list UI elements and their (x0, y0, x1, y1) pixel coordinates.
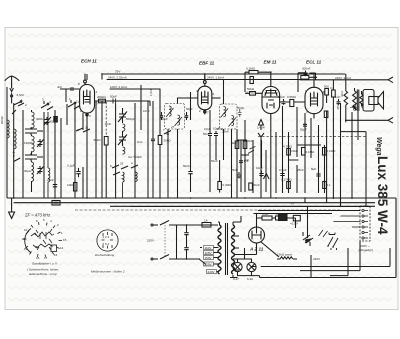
svg-text:75V: 75V (115, 70, 120, 74)
wire EBF top to bus (204, 74, 206, 81)
svg-text:25nF: 25nF (336, 102, 340, 109)
svg-text:2,5nF: 2,5nF (17, 93, 25, 97)
svg-text:50pF: 50pF (161, 117, 168, 121)
resistor 0.17M box (287, 182, 291, 189)
wire ECH top to bus (87, 74, 102, 80)
rosette switch wafer (23, 222, 62, 258)
svg-text:Drehschaltung: Drehschaltung (95, 253, 115, 257)
svg-text:Schaltplatten I u. II: Schaltplatten I u. II (32, 262, 57, 266)
wire x109 vertical (105, 145, 107, 198)
trimmer C L2 (37, 139, 44, 147)
resistor 50k osc (104, 137, 108, 146)
svg-text:(Wegadyn): (Wegadyn) (359, 248, 374, 252)
power transformer primary (218, 225, 221, 274)
capacitor 2.5nF antenna (11, 93, 13, 99)
svg-text:150V: 150V (205, 256, 212, 260)
svg-text:3,4Ω: 3,4Ω (262, 212, 269, 216)
svg-text:-7V: -7V (290, 202, 295, 206)
svg-text:0,3MΩ: 0,3MΩ (223, 183, 233, 187)
wire right edge drop (305, 198, 396, 278)
svg-text:11: 11 (76, 100, 79, 104)
coil 300pF left edge (7, 120, 9, 138)
voltage tap 240V (207, 270, 217, 274)
IF trap box on bus (52, 201, 60, 206)
wire ECL top area (298, 73, 317, 92)
svg-text:12: 12 (24, 247, 28, 251)
svg-text:EM 11: EM 11 (264, 60, 277, 65)
svg-text:50pF: 50pF (110, 94, 117, 98)
voltage tap 150V (204, 256, 214, 260)
svg-text:50kΩ: 50kΩ (94, 138, 102, 142)
svg-text:10nF: 10nF (256, 166, 263, 170)
svg-text:50nF: 50nF (203, 132, 210, 136)
switch contact a1 (12, 102, 24, 114)
svg-text:50nF: 50nF (253, 183, 260, 187)
svg-text:1nF: 1nF (244, 158, 249, 162)
svg-text:300pF: 300pF (0, 116, 4, 125)
bandfilter coil L3 (32, 162, 34, 181)
tube ECL11 internals (311, 92, 318, 106)
capacitor 50pF (113, 99, 116, 104)
wire x83 vertical (82, 113, 84, 198)
svg-text:Ca. 500pF: Ca. 500pF (128, 155, 142, 159)
svg-text:0,2: 0,2 (330, 86, 335, 90)
capacitor 25nF below EBF (214, 131, 218, 160)
svg-text:15kΩ warm: 15kΩ warm (277, 253, 293, 257)
voltage tap 125V (204, 251, 214, 255)
capacitor 0.5uF (280, 171, 284, 177)
resistor 4.7M box (287, 149, 291, 156)
svg-text:4nF: 4nF (57, 85, 62, 89)
wire x75 vertical (74, 104, 76, 198)
wire x153 vertical (152, 101, 154, 198)
capacitor 10nF x153 (151, 138, 155, 142)
wire IF2 out (224, 80, 232, 199)
resistor 0.2 below ECL (324, 111, 328, 118)
output transformer secondary (360, 94, 363, 106)
svg-text:10nF: 10nF (213, 127, 220, 131)
capacitor 25nF mid2 (237, 172, 241, 178)
wire mains top run (173, 224, 218, 226)
bus second (14, 202, 375, 204)
svg-text:0,17MΩ: 0,17MΩ (281, 178, 292, 182)
svg-text:0,1MΩ: 0,1MΩ (246, 91, 256, 95)
switch contact a3 (68, 100, 80, 109)
wire x115.6 vertical (115, 104, 117, 199)
capacitor 25nF out (350, 105, 358, 110)
capacitor pair mid (259, 171, 263, 177)
speaker cone (378, 92, 384, 110)
svg-text:1MΩ: 1MΩ (67, 183, 74, 187)
svg-text:6,3A: 6,3A (247, 277, 253, 281)
IF1 side cap right (185, 112, 188, 120)
wire x61 vertical (60, 118, 62, 198)
wire into terminals (333, 211, 360, 228)
resistor 50nF box (249, 183, 253, 190)
svg-text:3000: 3000 (36, 117, 43, 121)
svg-text:13000: 13000 (24, 141, 33, 145)
svg-text:10nF: 10nF (204, 127, 211, 131)
resistor 5.6k b (276, 216, 286, 220)
svg-text:0,1MΩ: 0,1MΩ (306, 150, 316, 154)
switch contact antenna low (14, 155, 21, 162)
mains switch bottom (160, 255, 173, 260)
resistor box ECL top (301, 76, 309, 80)
wire antenna down (11, 99, 13, 103)
fuse 1A (202, 223, 211, 228)
svg-text:1 2 3: 1 2 3 (103, 235, 110, 239)
svg-text:125V: 125V (205, 251, 212, 255)
wire right of ECL (323, 80, 333, 105)
wire heater run right (330, 248, 348, 276)
svg-text:200nF: 200nF (302, 67, 311, 71)
knob potentiometer (305, 239, 310, 243)
svg-text:16: 16 (54, 253, 58, 257)
resistor 100 zigzag vertical (344, 88, 348, 108)
svg-text:100V, 4,4mA: 100V, 4,4mA (110, 85, 127, 89)
resistor 20k (158, 136, 162, 145)
capacitor 50nF EM-ECL (282, 99, 286, 105)
svg-text:25nF: 25nF (47, 178, 54, 182)
rectifier AZ11 (249, 227, 265, 243)
resistor box r4 (323, 148, 327, 156)
trimmer C L3 (37, 166, 44, 174)
osc coil 3 (123, 172, 125, 198)
svg-text:ZF = 473 kHz: ZF = 473 kHz (24, 213, 51, 218)
svg-text:220V, 34mA: 220V, 34mA (335, 76, 351, 80)
svg-text:50nF: 50nF (183, 164, 190, 168)
tube ECH11 pins (85, 74, 87, 118)
svg-text:240V, 1,6mA: 240V, 1,6mA (207, 76, 224, 80)
resistor 0.1M horizontal top (249, 71, 258, 74)
switch contacts osc (112, 165, 138, 175)
coil antenna input (14, 129, 16, 149)
wire mains bottom run (173, 258, 200, 260)
junction dot (13, 152, 15, 154)
switch contact 21 (76, 128, 90, 132)
wire ECH grid left (60, 89, 80, 102)
wire 50nF column (190, 92, 192, 192)
terminal circles (362, 209, 364, 211)
svg-text:0,5MΩ: 0,5MΩ (287, 95, 297, 99)
NTC zigzag (277, 257, 297, 259)
wire x148 vertical (147, 101, 149, 198)
svg-text:1/4 W: 1/4 W (257, 126, 265, 130)
trimmer C L1 (44, 117, 51, 125)
wire x67 vertical (66, 104, 68, 125)
svg-text:25nF: 25nF (297, 168, 304, 172)
wire x160 vertical (159, 89, 161, 198)
tube EM11 pins (270, 81, 272, 118)
IF2 coil a (221, 107, 229, 118)
svg-text:14: 14 (60, 246, 64, 250)
svg-text:0,1MΩ: 0,1MΩ (246, 67, 256, 71)
svg-text:4,5kΩ: 4,5kΩ (290, 149, 299, 153)
svg-text:1,5nF: 1,5nF (149, 88, 153, 96)
link dashed tuning (105, 102, 107, 137)
switch below IF1 (164, 131, 171, 135)
wire AZ11 tap (235, 248, 257, 255)
svg-text:50pF: 50pF (186, 107, 193, 111)
wire left edge vertical (6, 87, 8, 198)
svg-text:4mA: 4mA (340, 91, 344, 97)
mains terminal bottom (153, 258, 158, 260)
svg-text:500: 500 (324, 85, 329, 89)
resistor box r1 (235, 141, 239, 149)
resistor box r3 (302, 148, 306, 156)
svg-text:220V: 220V (147, 239, 154, 243)
wire x168 vertical below IF1 (167, 129, 169, 198)
wire speaker connections (355, 88, 364, 109)
resistor 500 right of ECL (325, 89, 329, 96)
tuning gang C1 (118, 108, 127, 123)
speaker magnet (369, 97, 378, 105)
earth arrow (9, 198, 15, 219)
svg-text:Meßinstrument : Nullen 2: Meßinstrument : Nullen 2 (91, 270, 125, 274)
triangle pickup below EM11 (259, 120, 264, 126)
wire bus74 to output resistor (345, 74, 347, 88)
resistor 0.3M (218, 182, 222, 190)
IF1 side cap left (160, 112, 163, 120)
tube EM11 envelope (262, 87, 280, 114)
osc coil 1 (123, 124, 125, 131)
terminal strip dashed box (360, 206, 370, 241)
capacitor 50nF mid (188, 168, 192, 177)
svg-text:50nF: 50nF (211, 159, 218, 163)
capacitor 25nF left (54, 182, 56, 189)
svg-text:240V, 2,35mA: 240V, 2,35mA (108, 76, 127, 80)
svg-text:10nF: 10nF (105, 122, 112, 126)
resistor 1MOhm left (74, 183, 77, 192)
pilot lamp 2 (247, 262, 256, 271)
wire EM grid (245, 92, 262, 94)
wire bias dashed (258, 135, 366, 137)
wire bus 220V 34mA (300, 79, 372, 81)
wire x55 vertical (54, 110, 56, 198)
svg-text:EBF 11: EBF 11 (199, 61, 215, 66)
svg-text:27: 27 (171, 125, 175, 129)
svg-text:0,1: 0,1 (327, 183, 332, 187)
wire heater bus right (252, 218, 397, 278)
svg-text:50µF: 50µF (300, 128, 307, 132)
wire ECL to bus (313, 74, 315, 82)
svg-text:4,7MΩ: 4,7MΩ (283, 145, 293, 149)
wire tube bottom down (86, 118, 88, 198)
capacitor 10nF below EBF (208, 110, 212, 192)
svg-text:11: 11 (22, 237, 25, 241)
wire x96 vertical (95, 101, 97, 198)
svg-text:10: 10 (24, 228, 28, 232)
wire anode to IF1 (116, 101, 150, 106)
wire IF1 to EBF grid (178, 98, 198, 104)
output transformer core (357, 90, 359, 112)
tube EBF11 internals (202, 91, 209, 104)
wire taps to transformer (177, 225, 219, 272)
capacitor 200nF top ECL (304, 71, 308, 77)
svg-text:5kΩ: 5kΩ (231, 141, 237, 145)
wire AZ11 leads (241, 214, 257, 255)
svg-text:25nF: 25nF (231, 168, 238, 172)
resistor 0.2M right of ECL (332, 90, 336, 97)
resistor small column2 (54, 117, 58, 123)
wire x177 vertical below IF1 (177, 129, 179, 198)
output transformer primary (353, 91, 357, 111)
voltage tap 110V (204, 246, 214, 250)
bandfilter coil L1 (32, 112, 35, 128)
box 2.5V (293, 215, 300, 221)
rotary switch circle (97, 230, 118, 251)
capacitor 25nF 1500 (345, 120, 347, 122)
bus ground main (7, 197, 396, 199)
wire 0.3M column (219, 160, 221, 193)
svg-text:0,1MΩ: 0,1MΩ (327, 149, 337, 153)
svg-text:0,1µF: 0,1µF (67, 164, 75, 168)
capacitor 4.7nF grid (71, 87, 73, 91)
bandfilter coil L2 (32, 136, 35, 152)
switch arrows right tone (328, 233, 338, 251)
switch contact a2 (41, 101, 53, 110)
wire secondary taps (233, 236, 239, 278)
tube EM11 internals (263, 89, 279, 108)
IF1 coil b (175, 115, 183, 126)
svg-text:Lux 385 W-4: Lux 385 W-4 (375, 156, 390, 235)
tube EBF11 envelope (198, 86, 212, 110)
wire bus 240V 2.35mA (107, 79, 300, 81)
wire 0.1M to EM (245, 72, 271, 81)
capacitor 0.1uF (76, 168, 80, 177)
svg-text:20kΩ: 20kΩ (164, 139, 172, 143)
tuning gang C2 (118, 131, 127, 146)
svg-text:25: 25 (120, 162, 124, 166)
capacitor 5nF mains b (184, 246, 188, 259)
switch bottom right (303, 232, 313, 246)
tube ECH11 internals (84, 90, 91, 104)
capacitor 5nF mains a (184, 225, 188, 246)
wire horizontals mid right (237, 140, 321, 160)
svg-text:Wega: Wega (375, 137, 382, 156)
wire heater row (257, 217, 296, 219)
wire EM bottom (258, 118, 271, 198)
pilot lamp 1 (233, 262, 242, 271)
wire x135 vertical (134, 103, 136, 198)
switch arrows mid (248, 147, 256, 154)
wire transformer top leads (218, 222, 241, 225)
svg-text:50pF: 50pF (238, 106, 245, 110)
IF transformer 2 box (220, 104, 238, 129)
svg-text:200kΩ: 200kΩ (97, 95, 107, 99)
svg-text:18: 18 (36, 256, 40, 260)
wire right column verticals (327, 103, 358, 199)
tube EBF11 pins (204, 74, 206, 114)
wire bus 100V (110, 88, 160, 90)
antenna (5, 76, 19, 92)
svg-text:äußerer/Kreis : vorn): äußerer/Kreis : vorn) (29, 272, 57, 276)
wire coupling (280, 101, 305, 103)
coil column2 (48, 112, 50, 198)
wire x44 vertical (43, 112, 45, 198)
bracket joint 2 (25, 153, 43, 161)
capacitor 1nF output (337, 99, 341, 105)
IF2 coil b (229, 116, 237, 127)
svg-text:8µF: 8µF (311, 167, 316, 171)
bus fifth dashed (75, 209, 340, 211)
switch link dashed (164, 222, 166, 256)
speaker frame (363, 90, 374, 112)
junction dots (13, 197, 15, 199)
svg-text:17: 17 (44, 256, 48, 260)
wire antenna column (13, 103, 15, 198)
wire AZ11 diagonal (261, 242, 280, 258)
output terminal bottom arrow (345, 118, 393, 124)
osc coil 2 (123, 147, 125, 154)
capacitor 8uF (316, 171, 320, 177)
svg-text:0,47: 0,47 (233, 277, 239, 281)
mains switch top (160, 221, 173, 226)
svg-text:ECL 11: ECL 11 (306, 60, 322, 65)
capacitor 1nF mid (239, 158, 243, 164)
svg-text:240V: 240V (313, 257, 320, 261)
wire rails to terminals (254, 211, 361, 214)
wire x102 vertical (101, 101, 103, 198)
svg-text:220V: 220V (205, 262, 212, 266)
IF transformer 1 box (165, 104, 185, 130)
svg-text:25nF: 25nF (222, 130, 229, 134)
resistor box r2 (243, 141, 247, 149)
wire speaker return vertical (341, 132, 367, 206)
triangle 7A (264, 174, 270, 180)
svg-text:14,2Ω: 14,2Ω (276, 212, 285, 216)
power transformer secondary (232, 225, 235, 274)
svg-text:50nF: 50nF (278, 95, 285, 99)
output terminal top arrow (372, 77, 393, 83)
svg-text:20kΩ: 20kΩ (246, 139, 254, 143)
bus fourth (130, 206, 370, 208)
wire L-block verticals (31, 110, 33, 192)
svg-text:500pF: 500pF (126, 117, 135, 121)
svg-text:110V: 110V (205, 246, 212, 250)
svg-text:ECH 11: ECH 11 (81, 59, 97, 64)
resistor 5.6k a (262, 216, 272, 220)
mains terminal top (153, 224, 158, 226)
svg-text:31: 31 (166, 132, 170, 136)
wire mid verticals right block (237, 106, 325, 198)
IF2 side cap right (238, 109, 241, 117)
IF1 coil a (166, 106, 174, 117)
tube ECL11 pins (313, 82, 315, 118)
wire vertical x23 (22, 110, 24, 198)
resistor box r5 (323, 182, 327, 189)
svg-text:6 5 4: 6 5 4 (103, 242, 110, 246)
wire anode ECH11 (95, 100, 130, 102)
tube ECH11 envelope (80, 85, 95, 114)
svg-text:Osz.: Osz. (137, 140, 143, 144)
resistor 50k EM11 grid (250, 92, 256, 96)
wire bottom right bus (300, 241, 360, 271)
svg-text:10nF: 10nF (143, 109, 150, 113)
bracket joint 1 (25, 127, 43, 135)
wire EBF anode right (212, 97, 221, 99)
power transformer core (226, 223, 228, 275)
svg-text:15: 15 (63, 238, 67, 242)
voltage tap 220V (204, 262, 214, 266)
wire x141 vertical (140, 85, 142, 130)
wire lamps (230, 248, 260, 278)
resistor vertical EM top (250, 77, 253, 84)
svg-text:≈2,5V: ≈2,5V (290, 222, 298, 226)
wire top bus 75V (102, 73, 345, 75)
svg-text:30µH: 30µH (24, 169, 31, 173)
svg-text:0,5µF: 0,5µF (279, 168, 287, 172)
